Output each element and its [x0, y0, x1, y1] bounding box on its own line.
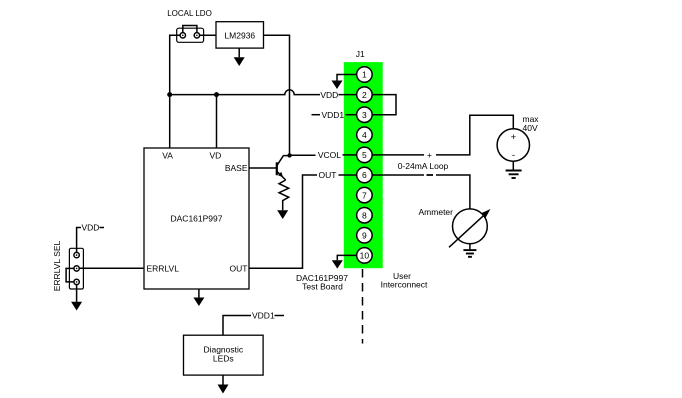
- dashed board boundary: [362, 269, 364, 344]
- stub VDD1 pin 3: [312, 114, 321, 116]
- svg-text:-: -: [512, 150, 515, 161]
- J1 pin 10: [357, 248, 373, 264]
- J1 pin 4: [357, 127, 373, 143]
- J1 pin 8: [357, 207, 373, 223]
- shunt bracket JP2: [66, 268, 74, 282]
- svg-text:+: +: [427, 150, 432, 160]
- wire VDD1 to LEDs box: [223, 316, 251, 336]
- wire jumper pin2 to pin3: [372, 95, 396, 115]
- svg-text:LM2936: LM2936: [224, 31, 255, 41]
- wire VD: [216, 95, 218, 148]
- svg-text:40V: 40V: [523, 123, 538, 133]
- wire plus to voltage source: [436, 115, 513, 155]
- svg-text:6: 6: [362, 170, 367, 180]
- J1 pin 7: [357, 187, 373, 203]
- stub after VDD1: [275, 315, 285, 317]
- wire jumper left to VDD bus and VA: [170, 35, 180, 148]
- svg-text:J1: J1: [356, 49, 365, 59]
- ground arrow below resistor: [277, 210, 288, 219]
- svg-text:1: 1: [362, 70, 367, 80]
- transistor Q1: [277, 156, 290, 180]
- wire VDD1 to pin 3: [346, 114, 357, 116]
- svg-text:9: 9: [362, 231, 367, 241]
- wire jumper to LM2936: [200, 34, 216, 36]
- resistor R1 emitter: [279, 180, 289, 210]
- svg-text:8: 8: [362, 210, 367, 220]
- VDD bus wire with hop: [170, 90, 320, 95]
- svg-text:5: 5: [362, 150, 367, 160]
- svg-text:VD: VD: [209, 151, 221, 161]
- wire ERRLVL: [79, 267, 144, 269]
- svg-text:OUT: OUT: [230, 264, 248, 274]
- svg-text:3: 3: [362, 110, 367, 120]
- label minus: [427, 174, 434, 176]
- svg-text:ERRLVL: ERRLVL: [147, 264, 180, 274]
- svg-text:Interconnect: Interconnect: [381, 280, 428, 290]
- svg-text:VDD1: VDD1: [252, 311, 275, 321]
- J1 pin 3: [357, 107, 373, 123]
- connector J1 body: [344, 62, 383, 268]
- wire pin 5 to plus: [372, 154, 424, 156]
- wire OUT to pin 6: [339, 174, 357, 176]
- wire pin 6 to minus: [372, 174, 424, 176]
- ground arrow below LEDs: [218, 375, 229, 393]
- J1 pin 5: [357, 147, 373, 163]
- wire VDD to pin 2: [339, 94, 357, 96]
- regulator U2 LM2936: [216, 22, 264, 48]
- svg-text:VCOL: VCOL: [318, 150, 341, 160]
- J1 pin 2: [357, 87, 373, 103]
- svg-text:Ammeter: Ammeter: [419, 207, 454, 217]
- svg-text:0-24mA Loop: 0-24mA Loop: [398, 161, 449, 171]
- svg-text:ERRLVL SEL: ERRLVL SEL: [52, 240, 62, 291]
- voltage source V1: [497, 129, 529, 161]
- stub after VDD: [100, 227, 105, 229]
- jumper JP1 (local LDO enable): [177, 26, 204, 43]
- wire minus to ammeter: [436, 175, 470, 209]
- wire VDD to header: [77, 228, 81, 253]
- J1 pin 1: [357, 67, 373, 83]
- label DAC161P997 Test Board: [296, 273, 348, 292]
- svg-text:10: 10: [360, 251, 370, 261]
- ground arrow below LM2936: [234, 48, 245, 66]
- wire VCOL to pin 5: [343, 154, 357, 156]
- wire pin 1 with ground arrow: [332, 75, 357, 90]
- ammeter M1: [449, 209, 491, 247]
- wire pin 10 with ground arrow: [332, 255, 357, 268]
- svg-text:Test Board: Test Board: [302, 282, 343, 292]
- ground below ammeter: [463, 244, 476, 257]
- svg-text:VDD: VDD: [320, 90, 338, 100]
- wire OUT net: [249, 175, 317, 268]
- svg-text:VDD1: VDD1: [321, 110, 344, 120]
- svg-text:LOCAL LDO: LOCAL LDO: [167, 9, 212, 18]
- junction dot collector: [287, 153, 291, 157]
- wire VCOL: [290, 154, 316, 156]
- svg-text:+: +: [511, 132, 517, 143]
- wire LM2936 output down to collector: [264, 35, 290, 155]
- svg-text:VA: VA: [162, 151, 173, 161]
- svg-text:BASE: BASE: [225, 163, 248, 173]
- J1 pin 6: [357, 167, 373, 183]
- ground arrow below header: [71, 285, 82, 311]
- svg-text:DAC161P997: DAC161P997: [171, 214, 223, 224]
- svg-text:VDD: VDD: [82, 223, 100, 233]
- header JP2 ERRLVL SEL: [69, 248, 83, 289]
- box diagnostic LEDs: [184, 335, 264, 375]
- wire BASE: [249, 167, 277, 169]
- junction dot VD: [214, 92, 219, 97]
- svg-text:OUT: OUT: [319, 170, 337, 180]
- junction dot VA: [167, 92, 172, 97]
- svg-text:LEDs: LEDs: [213, 354, 234, 364]
- ground below voltage source: [506, 161, 522, 178]
- label User Interconnect: [381, 271, 428, 290]
- svg-text:7: 7: [362, 190, 367, 200]
- J1 pin 9: [357, 228, 373, 244]
- ground arrow below DAC: [193, 289, 204, 306]
- svg-text:2: 2: [362, 90, 367, 100]
- label max 40V: [523, 114, 540, 133]
- svg-text:4: 4: [362, 130, 367, 140]
- IC U1 DAC161P997: [144, 148, 249, 289]
